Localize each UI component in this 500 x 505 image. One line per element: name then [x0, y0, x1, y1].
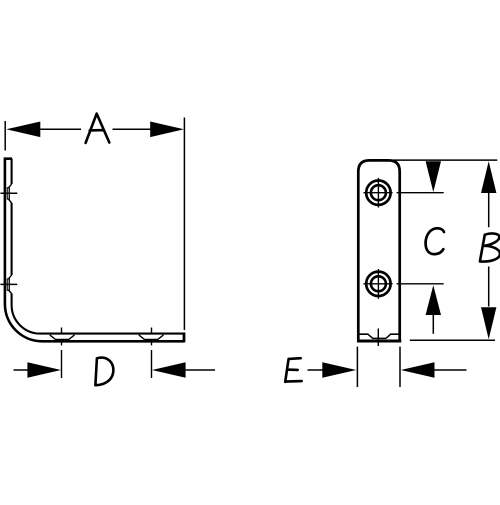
front bottom countersink — [368, 335, 390, 339]
front view bottom edge — [357, 340, 401, 343]
dimension D left arrow — [27, 362, 61, 377]
front hole 1 centerlines — [363, 178, 443, 208]
dimension A right extension line — [183, 118, 185, 331]
dimension E left arrow — [322, 362, 356, 377]
front hole 2 outer circle — [366, 272, 390, 296]
dimension B bottom arrow — [481, 307, 496, 339]
dimension D extension line left — [61, 328, 63, 379]
dimension E right arrow — [401, 362, 435, 377]
side hole 2 center tick — [0, 283, 17, 285]
front view outline — [357, 160, 401, 342]
side hole 1 center tick — [0, 192, 17, 194]
dimension A left extension line — [4, 121, 6, 151]
dimension A line — [40, 128, 151, 130]
front view inner bottom line — [359, 333, 399, 335]
dimension B top arrow — [481, 161, 496, 193]
front hole 1 outer circle — [366, 181, 390, 205]
label E — [285, 358, 302, 382]
dimension C bottom arrow — [426, 285, 441, 315]
dimension B line — [488, 193, 490, 307]
dimension E left extension line — [356, 347, 358, 387]
label A — [86, 114, 110, 143]
dimension A right arrow — [150, 122, 184, 138]
dimension A left arrow — [6, 122, 40, 138]
side hole 1 countersink section — [7, 184, 11, 203]
label D — [95, 358, 113, 386]
dimension E right extension line — [399, 347, 401, 387]
dimension B top extension line — [391, 159, 497, 161]
label B — [480, 233, 500, 261]
front hole 2 centerlines — [363, 269, 443, 299]
dimension D extension line right — [151, 328, 153, 379]
dimension B bottom extension line — [410, 339, 495, 341]
side view outline (L profile) — [5, 159, 184, 343]
bottom leg countersink 1 — [50, 335, 75, 340]
dimension C top arrow — [426, 161, 441, 192]
bottom leg countersink 2 — [139, 335, 164, 340]
front hole 2 inner circle — [371, 276, 386, 291]
front bottom center line — [377, 329, 379, 347]
side hole 2 countersink section — [7, 275, 11, 294]
side view end cap — [183, 333, 186, 343]
front hole 1 inner circle — [371, 185, 386, 200]
dimension D right arrow — [152, 362, 186, 377]
label C — [426, 228, 444, 254]
